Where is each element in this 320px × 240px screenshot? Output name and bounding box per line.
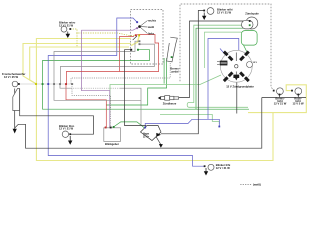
svg-text:12 V Zündgrundplatte: 12 V Zündgrundplatte — [226, 85, 254, 89]
svg-text:(weiß): (weiß) — [253, 183, 261, 187]
svg-text:12 V / 25 W: 12 V / 25 W — [4, 75, 19, 79]
svg-text:12 V=: 12 V= — [143, 135, 150, 138]
svg-text:rechts: rechts — [148, 19, 157, 23]
svg-text:links: links — [148, 32, 155, 36]
svg-text:weiß: weiß — [147, 25, 154, 29]
svg-text:12 V: 12 V — [253, 62, 258, 64]
svg-text:12 V / 21 W: 12 V / 21 W — [216, 166, 231, 170]
svg-text:12 V / 21 W: 12 V / 21 W — [59, 23, 74, 27]
svg-text:12 V 5 W: 12 V 5 W — [292, 102, 304, 106]
svg-text:Zündspule: Zündspule — [245, 12, 259, 16]
svg-text:12 V / 21 W: 12 V / 21 W — [217, 10, 232, 14]
svg-text:Blinkgeber: Blinkgeber — [105, 142, 119, 146]
svg-text:12 V 21 W: 12 V 21 W — [274, 102, 287, 106]
svg-text:12 V / 21 W: 12 V / 21 W — [59, 127, 74, 131]
svg-text:Zündkerze: Zündkerze — [163, 101, 177, 105]
svg-text:pedal: pedal — [171, 70, 178, 74]
